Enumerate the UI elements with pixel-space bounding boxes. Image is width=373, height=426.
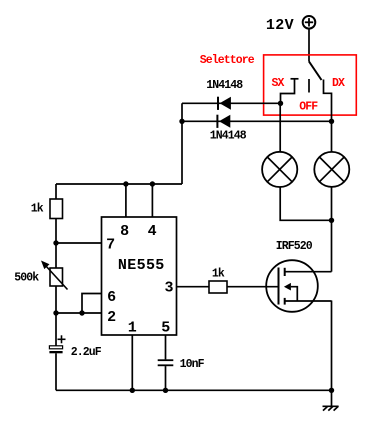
- svg-text:5: 5: [161, 319, 170, 336]
- svg-text:2: 2: [107, 309, 116, 326]
- potentiometer R2 500k: [41, 243, 68, 313]
- node: diode rails junction: [179, 119, 184, 124]
- svg-text:4: 4: [148, 223, 157, 240]
- wire: R3 to MOSFET gate: [227, 286, 279, 288]
- node: pin 2 junction: [53, 310, 58, 315]
- label 1N4148 (bottom): [210, 130, 247, 143]
- svg-text:1k: 1k: [31, 203, 44, 216]
- svg-text:12V: 12V: [266, 17, 294, 34]
- label 10nF: [180, 358, 205, 371]
- label 1N4148 (top): [206, 79, 243, 92]
- node: pin 7 junction: [53, 240, 58, 245]
- wire: junction down to C1: [55, 313, 57, 346]
- label IRF520: [276, 240, 313, 253]
- label 2.2uF: [71, 346, 102, 359]
- label 12V: [266, 17, 294, 34]
- MOSFET Q1 IRF520: [266, 260, 331, 312]
- switch contact SX (left): [281, 79, 299, 104]
- lamp LP2 (right): [314, 152, 349, 187]
- switch contact OFF (center): [308, 79, 310, 93]
- wire: pin 3 to R3: [177, 286, 210, 288]
- resistor R1 1k: [50, 184, 63, 243]
- svg-text:IRF520: IRF520: [276, 240, 313, 253]
- diode D1 1N4148 (top): [218, 97, 231, 110]
- pin 5 number: [161, 319, 170, 336]
- svg-text:7: 7: [106, 237, 115, 254]
- capacitor C2 10nF: [158, 360, 174, 390]
- label SX: [272, 77, 285, 90]
- node: switch DX to diode rail junction: [329, 119, 334, 124]
- IC U1 NE555: [102, 217, 177, 335]
- wire: left vertical joining diode rails: [181, 103, 183, 184]
- svg-text:1N4148: 1N4148: [206, 79, 243, 92]
- wire: MOSFET source down to ground: [331, 301, 333, 407]
- pin 6 number: [107, 289, 116, 306]
- node: pin 1 rail junction: [130, 388, 135, 393]
- wire: DX junction down to lamp LP2: [331, 121, 333, 152]
- wire: pin 1 to ground rail: [131, 335, 133, 390]
- pin 7 number: [106, 237, 115, 254]
- label 500k: [14, 272, 39, 285]
- node: switch SX to lamp/diode junction: [278, 101, 283, 106]
- switch lever: [309, 62, 322, 81]
- wire: pin 7: [56, 242, 102, 244]
- svg-text:SX: SX: [272, 77, 285, 90]
- pin 1 number: [128, 319, 137, 336]
- label 1k (R3): [212, 268, 225, 281]
- wire: LP1 bottom to join: [280, 187, 331, 220]
- ground symbol: [323, 406, 339, 410]
- svg-text:3: 3: [165, 279, 174, 296]
- resistor R3 1k (gate): [209, 281, 227, 293]
- pin 2 number: [107, 309, 116, 326]
- svg-text:500k: 500k: [14, 272, 39, 285]
- node: C2 rail junction: [163, 388, 168, 393]
- svg-text:1N4148: 1N4148: [210, 130, 247, 143]
- node: pin 8 junction: [123, 181, 128, 186]
- pin 3 number: [165, 279, 174, 296]
- wire: LP2 bottom down to MOSFET drain: [331, 187, 333, 272]
- wire: pin 2: [56, 312, 102, 314]
- node: ground rail junction: [329, 388, 334, 393]
- wire: pin 8: [125, 184, 127, 217]
- svg-text:8: 8: [120, 223, 129, 240]
- wire: SX junction down to lamp LP1: [279, 103, 281, 152]
- wire: top horizontal rail to pins 8/4 and R1: [56, 183, 182, 185]
- svg-text:6: 6: [107, 289, 116, 306]
- wire: pin 4: [151, 184, 153, 217]
- svg-text:Selettore: Selettore: [200, 54, 255, 67]
- svg-text:2.2uF: 2.2uF: [71, 346, 102, 359]
- label Selettore: [200, 54, 255, 67]
- wire: top diode rail: [182, 102, 281, 104]
- selector switch S1 frame: [264, 55, 357, 115]
- wire: pin 5 to C2: [165, 335, 167, 359]
- svg-text:DX: DX: [332, 77, 345, 90]
- capacitor C1 2.2uF electrolytic: [49, 335, 65, 390]
- pin 8 number: [120, 223, 129, 240]
- +12V supply terminal: [303, 16, 316, 29]
- wire: 12V terminal to switch pole: [308, 29, 310, 62]
- node: pin 6 tap junction: [79, 310, 84, 315]
- svg-text:1: 1: [128, 319, 137, 336]
- svg-text:1k: 1k: [212, 268, 225, 281]
- node: lamps junction: [329, 218, 334, 223]
- switch contact DX (right): [324, 80, 332, 122]
- label OFF: [299, 100, 318, 113]
- node: pin 4 junction: [150, 181, 155, 186]
- wire: bottom ground rail: [56, 389, 332, 391]
- diode D2 1N4148 (bottom): [217, 115, 230, 128]
- wire: bottom diode rail: [182, 120, 332, 122]
- svg-text:OFF: OFF: [299, 100, 318, 113]
- svg-text:NE555: NE555: [118, 257, 165, 274]
- label 1k (R1): [31, 203, 44, 216]
- wire: pin 6: [82, 294, 102, 314]
- label NE555: [118, 257, 165, 274]
- label DX: [332, 77, 345, 90]
- pin 4 number: [148, 223, 157, 240]
- svg-text:10nF: 10nF: [180, 358, 205, 371]
- lamp LP1 (left): [262, 152, 297, 187]
